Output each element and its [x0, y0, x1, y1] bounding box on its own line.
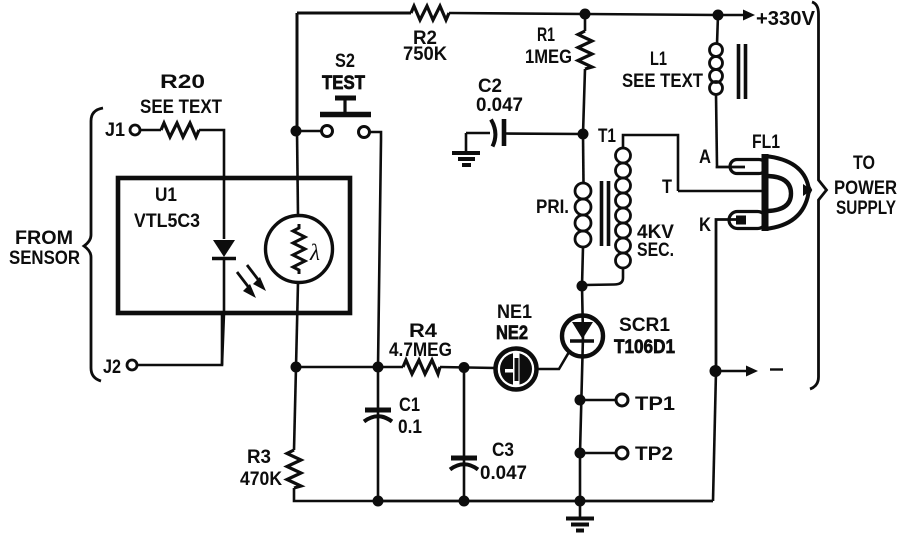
node C3 top: [459, 362, 470, 373]
svg-text:SUPPLY: SUPPLY: [836, 198, 896, 219]
anode electrode capsule: [730, 160, 766, 174]
svg-text:C3: C3: [492, 440, 514, 461]
node T1: [578, 129, 589, 140]
svg-text:TEST: TEST: [322, 73, 365, 94]
svg-text:SCR1: SCR1: [619, 315, 670, 336]
test point TP1: [575, 395, 586, 406]
svg-text:L1: L1: [650, 49, 667, 70]
LED of U1: [213, 240, 235, 257]
stray dash: [770, 368, 783, 370]
wire R4 row: [296, 366, 403, 369]
wire J1 to R20: [140, 129, 161, 132]
svg-text:PRI.: PRI.: [536, 197, 569, 218]
svg-text:0.1: 0.1: [398, 417, 422, 438]
svg-text:R4: R4: [409, 321, 437, 342]
brace FROM SENSOR: [84, 108, 103, 381]
svg-text:C1: C1: [399, 395, 420, 416]
wire top rail mid: [449, 13, 718, 15]
inductor L1 core: [737, 44, 741, 99]
ground bottom: [579, 501, 582, 517]
svg-text:C2: C2: [478, 76, 502, 97]
svg-text:0.047: 0.047: [480, 463, 527, 484]
resistor R1: [584, 14, 587, 31]
inductor L1: [717, 15, 718, 44]
wire left rail to R3: [294, 367, 296, 450]
transformer T1 secondary: [623, 135, 678, 191]
ground C2: [465, 133, 468, 152]
svg-text:J2: J2: [103, 357, 121, 378]
svg-text:+330V: +330V: [756, 8, 816, 30]
svg-text:SEE TEXT: SEE TEXT: [622, 71, 703, 92]
resistor R3: [287, 450, 301, 488]
bracket to power supply: [810, 2, 827, 389]
wire cathode K: [716, 220, 738, 372]
wire K column lower: [713, 371, 716, 501]
wire neon to SCR gate: [537, 352, 570, 369]
trigger wire T: [678, 190, 763, 193]
cathode electrode capsule: [729, 212, 766, 229]
capacitor C3: [463, 367, 466, 501]
svg-text:T1: T1: [598, 126, 616, 147]
svg-text:NE2: NE2: [496, 323, 528, 344]
node bottom SCR column: [575, 496, 586, 507]
wire bottom rail: [378, 500, 713, 503]
svg-text:NE1: NE1: [497, 302, 532, 323]
svg-text:U1: U1: [155, 185, 177, 206]
wire LED to J2 row: [222, 257, 224, 365]
LED light arrow 1: [237, 272, 250, 289]
svg-text:VTL5C3: VTL5C3: [134, 211, 200, 232]
node bottom C3: [459, 496, 470, 507]
wire R3 bottom corner: [294, 488, 378, 501]
node C1 top: [373, 362, 384, 373]
svg-text:T106D1: T106D1: [614, 337, 675, 358]
SCR1: [562, 316, 603, 357]
svg-text:1MEG: 1MEG: [525, 47, 572, 68]
svg-text:K: K: [699, 215, 711, 236]
LED light arrow 2: [247, 265, 260, 282]
svg-text:4.7MEG: 4.7MEG: [389, 340, 452, 361]
node arrow to power supply: [710, 365, 722, 377]
svg-text:R20: R20: [160, 72, 205, 93]
optocoupler U1 box: [118, 178, 350, 313]
node S2 left: [291, 126, 302, 137]
svg-text:R1: R1: [537, 25, 555, 46]
wire R20 to LED column: [199, 130, 224, 239]
node top L1: [713, 10, 724, 21]
flash tube outer envelope: [765, 156, 810, 229]
svg-text:TP2: TP2: [635, 444, 673, 465]
svg-text:TO: TO: [853, 153, 875, 174]
svg-text:SEE TEXT: SEE TEXT: [140, 97, 222, 118]
resistor R2: [411, 6, 449, 20]
capacitor C1: [377, 367, 380, 501]
resistor R20: [161, 123, 199, 137]
node transformer bottom: [577, 281, 588, 292]
svg-text:S2: S2: [335, 51, 355, 72]
flash tube bar: [762, 154, 769, 231]
wire R4 to neon: [440, 367, 496, 368]
node bottom C1: [373, 496, 384, 507]
svg-text:FROM: FROM: [15, 228, 73, 249]
svg-text:TP1: TP1: [635, 394, 675, 415]
svg-text:POWER: POWER: [834, 178, 897, 199]
svg-text:SEC.: SEC.: [637, 240, 674, 261]
svg-text:FL1: FL1: [752, 132, 780, 153]
svg-text:750K: 750K: [403, 44, 447, 65]
+330V supply arrow: [718, 14, 745, 17]
svg-text:T: T: [662, 177, 672, 198]
svg-text:0.047: 0.047: [476, 95, 523, 116]
svg-text:R3: R3: [247, 447, 271, 468]
resistor R4: [403, 360, 440, 374]
wire S2 right drop: [370, 132, 382, 367]
test point TP2: [575, 448, 586, 459]
wire anode A: [717, 166, 745, 167]
svg-text:SENSOR: SENSOR: [9, 248, 80, 269]
photocell of U1: [266, 216, 333, 283]
wire top rail: [297, 12, 411, 15]
transformer T1 primary: [582, 134, 585, 184]
wire left rail through box: [297, 131, 298, 216]
svg-text:λ: λ: [309, 240, 320, 265]
transformer T1 core: [600, 181, 604, 246]
wire left rail upper: [296, 13, 299, 131]
flash tube inner arc: [768, 176, 791, 211]
wire SCR column: [580, 286, 583, 501]
node top R1: [580, 9, 591, 20]
svg-text:A: A: [699, 147, 711, 168]
wire J2 to LED column: [137, 313, 222, 365]
node R4 row left: [291, 362, 302, 373]
svg-text:470K: 470K: [240, 469, 282, 490]
svg-text:J1: J1: [105, 120, 125, 141]
